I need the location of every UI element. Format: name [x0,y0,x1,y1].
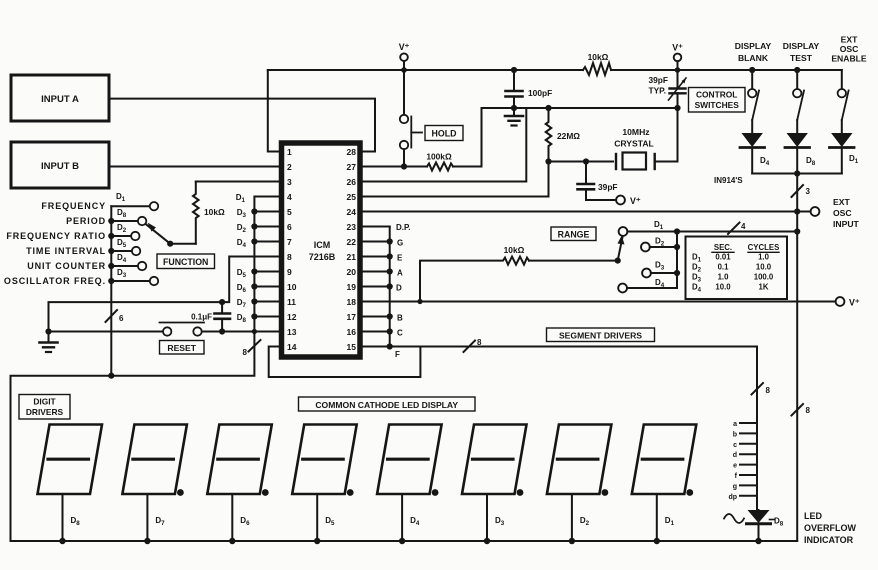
svg-text:SWITCHES: SWITCHES [695,100,740,110]
wire: pin 6 [254,226,279,228]
svg-text:e: e [733,463,737,470]
svg-text:E: E [397,254,403,263]
resistor R4 22M [546,108,581,162]
resistor R2 100k [426,152,453,171]
svg-text:8: 8 [766,386,771,395]
capacitor C1 100pF [506,70,553,108]
svg-text:SEC.: SEC. [714,243,732,252]
svg-text:25: 25 [347,192,357,202]
svg-text:g: g [733,483,737,490]
svg-text:4: 4 [741,222,746,231]
bus slash 8 (control bus) [792,404,811,416]
label EXT OSC ENABLE [831,35,867,64]
node: 22M bottom [545,158,551,164]
led digit D5 [292,425,357,545]
wire: pin 23 D.P. [362,223,411,232]
svg-text:100pF: 100pF [528,88,552,98]
led digit D7 [122,425,186,545]
svg-text:ICM: ICM [314,240,331,250]
svg-text:24: 24 [347,207,357,217]
svg-text:D.P.: D.P. [396,223,411,232]
svg-text:0.01: 0.01 [715,253,731,262]
svg-text:17: 17 [347,312,357,322]
terminal V+ (left) [399,42,410,70]
svg-text:d: d [733,452,737,459]
labels D5 D6 D7 D8 at pins 9-12 [237,268,247,324]
svg-text:22MΩ: 22MΩ [557,131,580,141]
svg-text:RANGE: RANGE [558,230,590,240]
node: range bus taps [674,228,800,276]
svg-text:2: 2 [287,162,292,172]
decimal point digit D2 [602,489,609,496]
svg-text:3: 3 [287,177,292,187]
svg-text:dp: dp [728,494,737,501]
svg-text:DISPLAY: DISPLAY [783,41,820,51]
svg-text:TEST: TEST [790,53,813,63]
svg-text:INDICATOR: INDICATOR [804,535,854,545]
label DISPLAY TEST [783,41,820,63]
svg-text:39pF: 39pF [598,182,618,192]
svg-text:OSC: OSC [840,44,859,54]
svg-text:10.0: 10.0 [715,283,731,292]
wire: 100k to osc node [453,108,678,167]
wire: segment bus vertical [389,227,391,347]
svg-text:28: 28 [347,147,357,157]
switch contacts: OSCILLATOR FREQ row [111,277,158,285]
svg-text:a: a [733,421,737,428]
svg-text:18: 18 [347,297,357,307]
svg-text:15: 15 [347,342,357,352]
wire: segment bus to display [756,347,758,511]
wire: diode bottom bus [752,173,842,175]
node: 22M top [545,105,551,111]
segment letter taps a-dp [728,421,757,501]
svg-text:8: 8 [243,348,248,357]
RANGE label box [551,227,596,241]
svg-text:OVERFLOW: OVERFLOW [804,523,857,533]
hold switch S2 [400,70,422,167]
wire: pin 9 [254,271,279,273]
bus slash 8 (display side) [752,383,771,395]
wire: pin 7 [254,241,279,243]
svg-text:22: 22 [347,237,357,247]
function switch blade S1 [147,223,196,247]
svg-text:CRYSTAL: CRYSTAL [614,139,654,149]
ground symbol (osc) [505,108,523,126]
range table box [686,237,788,300]
svg-text:SEGMENT DRIVERS: SEGMENT DRIVERS [559,331,642,341]
switch contacts: TIME INTERVAL row [111,247,140,255]
svg-text:9: 9 [287,267,292,277]
svg-text:1: 1 [287,147,292,157]
led digit D2 [547,425,612,545]
svg-text:G: G [397,239,403,248]
svg-text:10kΩ: 10kΩ [504,245,525,255]
wire: crystal left [549,161,614,163]
FUNCTION label box [157,254,215,269]
wire: pin 24 ext osc input [362,211,811,213]
switch contacts: FREQUENCY RATIO row [111,232,139,240]
svg-text:0.1μF: 0.1μF [191,313,212,322]
wire: pin 11 [254,301,279,303]
svg-text:10kΩ: 10kΩ [204,207,225,217]
svg-text:5: 5 [287,207,292,217]
svg-text:V⁺: V⁺ [672,43,683,53]
wire: right control bus [796,174,798,542]
decimal point digit D5 [347,489,354,496]
svg-text:TIME INTERVAL: TIME INTERVAL [26,246,106,256]
wire: pin 19 D [362,284,402,293]
svg-text:11: 11 [287,297,296,307]
LED overflow D8 [724,510,784,541]
svg-text:7216B: 7216B [309,252,336,262]
svg-text:100.0: 100.0 [754,273,774,282]
pin numbers right 28-15 [347,147,357,352]
resistor R1 10k (function) [193,182,225,244]
bus slash 6 [106,310,125,323]
pin numbers left 1-14 [287,147,297,352]
svg-text:19: 19 [347,282,357,292]
svg-text:C: C [397,329,403,338]
bus slash 8 (segment line) [464,338,483,352]
svg-text:LED: LED [804,511,823,521]
range contact D4 [618,278,677,292]
function contact labels D1 D8 D2 D5 D4 D3 [116,192,127,279]
svg-text:A: A [397,269,403,278]
svg-text:10kΩ: 10kΩ [588,52,609,62]
reset switch S3 [52,323,204,336]
COMMON CATHODE LED DISPLAY label box [299,397,476,411]
node: rail junctions [401,67,800,73]
INPUT A box [11,75,109,121]
switch contacts: UNIT COUNTER row [111,262,146,270]
IC U1 ICM7216B [282,143,361,357]
wire: pin 3 to R1 [196,181,279,183]
svg-text:TYP.: TYP. [648,86,666,96]
svg-text:DISPLAY: DISPLAY [735,41,772,51]
svg-text:HOLD: HOLD [432,129,457,139]
svg-text:ENABLE: ENABLE [831,54,867,64]
svg-text:F: F [395,350,400,359]
CONTROL SWITCHES label box [689,88,746,113]
decimal point digit D3 [517,489,524,496]
svg-text:10: 10 [287,282,297,292]
wire: pin 16 C [362,329,403,338]
led digit D3 [462,425,527,545]
wire: pin 22 G [362,239,403,248]
svg-text:13: 13 [287,327,297,337]
svg-text:1.0: 1.0 [758,253,770,262]
svg-text:PERIOD: PERIOD [66,216,106,226]
svg-text:V⁺: V⁺ [849,298,860,308]
switch: display blank [748,70,759,133]
node: ground junction [45,328,51,334]
decimal point digit D7 [177,489,184,496]
wire: INPUT B to pin 2 [109,166,279,168]
wire: pin 17 B [362,314,403,323]
switch: display test [793,70,804,133]
terminal V+ (39pF) [616,196,641,206]
svg-text:4: 4 [287,192,292,202]
diode D1 1N914 [830,133,859,174]
svg-text:10MHz: 10MHz [622,127,649,137]
node: digit bus taps [251,208,257,334]
svg-text:1.0: 1.0 [718,273,730,282]
svg-text:3: 3 [806,187,811,196]
svg-text:b: b [733,431,737,438]
decimal point digit D1 [686,489,693,496]
svg-text:V⁺: V⁺ [399,42,410,52]
led digit D8 [38,425,103,545]
led digit D4 [377,425,442,545]
svg-text:39pF: 39pF [648,75,668,85]
svg-text:INPUT B: INPUT B [41,161,79,172]
svg-text:6: 6 [119,314,124,323]
wire: rail right part [611,69,842,71]
svg-text:100kΩ: 100kΩ [426,152,452,162]
wire: pin 26 riser [362,108,526,182]
terminal V+ (range) [836,297,860,307]
svg-text:20: 20 [347,267,357,277]
switch: ext osc enable [838,70,849,133]
terminal V+ (top right) [672,43,683,71]
decimal point digit D4 [432,489,439,496]
bus slash 3 [792,185,811,197]
wire: crystal right riser [655,108,678,162]
switch contacts: FREQUENCY row [111,202,158,210]
wire: pin 15 F segment line [362,347,757,360]
labels D1 D3 D2 D4 at pins 4-7 [236,193,247,249]
wire: pin 8 to ground rail [49,257,280,332]
node: 0.1uF bottom junction [219,328,225,334]
decimal point digit D6 [262,489,269,496]
svg-text:7: 7 [287,237,292,247]
svg-text:EXT: EXT [833,197,850,207]
node: pin27/hold junction [401,163,407,169]
svg-text:B: B [397,314,403,323]
crystal Y1 10MHz [614,127,655,170]
capacitor C3 39pF [578,162,618,201]
range switch blade [615,236,625,264]
svg-text:V⁺: V⁺ [630,196,641,206]
wire: pin 21 E [362,254,403,263]
svg-text:0.1: 0.1 [718,263,730,272]
HOLD label box [425,126,463,141]
svg-text:8: 8 [477,338,482,347]
svg-text:23: 23 [347,222,357,232]
wire: pin 14 loop [269,347,421,378]
wire: pin 1 riser [268,70,279,152]
wire: pin 27 [362,166,427,168]
node: function bus taps [108,218,114,379]
wire: pin 25 riser [362,162,549,197]
node: diode bus junction [794,170,800,176]
svg-text:FREQUENCY RATIO: FREQUENCY RATIO [6,231,106,241]
bus slash 8 (digit bus) [243,340,261,357]
svg-text:CYCLES: CYCLES [748,243,780,252]
svg-text:1K: 1K [759,283,769,292]
svg-text:COMMON CATHODE LED DISPLAY: COMMON CATHODE LED DISPLAY [315,400,458,410]
svg-text:DIGIT: DIGIT [33,397,56,407]
label LED OVERFLOW INDICATOR [804,511,857,545]
node: LED to bus [755,538,761,544]
bus slash 4 [728,222,746,234]
svg-text:FUNCTION: FUNCTION [163,257,208,267]
node: 39pF tap [583,158,589,164]
range contact D3 [642,261,677,278]
DIGIT DRIVERS label box [19,395,70,420]
svg-text:6: 6 [287,222,292,232]
svg-text:8: 8 [287,252,292,262]
svg-text:UNIT COUNTER: UNIT COUNTER [27,261,106,271]
svg-text:IN914'S: IN914'S [714,176,743,185]
svg-text:D: D [396,284,402,293]
svg-text:OSCILLATOR FREQ.: OSCILLATOR FREQ. [4,276,106,286]
diode D4 1N914 [740,133,770,174]
svg-text:FREQUENCY: FREQUENCY [41,201,106,211]
svg-text:EXT: EXT [841,35,858,45]
wire: V+ top rail [268,69,583,71]
wire: function select bus [110,206,112,376]
node: 0.1uF top junction [219,299,225,305]
wire: pin 12 [254,316,279,318]
wire: INPUT A to pin 28 [109,99,375,152]
capacitor C4 0.1uF [191,302,230,331]
range contact D1 [619,220,798,236]
svg-text:BLANK: BLANK [738,53,769,63]
svg-text:OSC: OSC [833,208,852,218]
svg-text:27: 27 [347,162,357,172]
label DISPLAY BLANK [735,41,772,63]
svg-text:14: 14 [287,342,297,352]
svg-text:DRIVERS: DRIVERS [26,407,64,417]
svg-text:c: c [733,442,737,449]
INPUT B box [11,142,109,188]
resistor R5 10k (range) [417,245,529,304]
svg-text:8: 8 [806,406,811,415]
svg-text:10.0: 10.0 [756,263,772,272]
range contact D2 [641,237,677,252]
wire: digit bus D1-D8 [11,197,280,542]
led digit D6 [207,425,271,545]
wire: pin 13 reset line [202,331,279,333]
node: 100pF bottom [511,105,517,111]
wire: pin 20 A [362,269,403,278]
node: segment bus taps [387,238,393,349]
svg-text:INPUT: INPUT [833,219,860,229]
function select labels [4,201,106,286]
SEGMENT DRIVERS label box [547,328,655,342]
svg-text:21: 21 [347,252,357,262]
wire: pin 5 [254,211,279,213]
svg-text:RESET: RESET [167,343,196,353]
node: osc node right [674,105,680,111]
resistor R3 10k (osc rail) [583,52,611,75]
node: ext osc junction [794,208,800,214]
wire: display bottom bus [11,540,798,542]
trimmer capacitor C2 39pF TYP [648,70,686,108]
wire: range bus vertical [676,232,678,289]
svg-text:26: 26 [347,177,357,187]
switch contacts: PERIOD row [111,217,146,225]
svg-text:CONTROL: CONTROL [696,90,737,100]
ground symbol [40,332,58,353]
svg-text:16: 16 [347,327,357,337]
terminal EXT OSC INPUT [811,197,860,229]
wire: pin 18 to V+ [362,301,836,303]
svg-text:12: 12 [287,312,297,322]
RESET label box [160,341,205,355]
wire: 10k to range switch [529,260,618,262]
svg-text:INPUT A: INPUT A [41,94,79,105]
wire: pin 10 [254,286,279,288]
diode D8 1N914 [785,133,816,174]
led digit D1 [632,425,697,545]
